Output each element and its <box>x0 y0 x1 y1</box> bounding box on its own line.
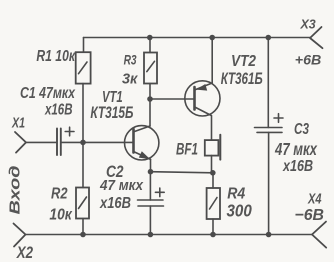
svg-text:X4: X4 <box>307 191 321 207</box>
svg-text:+6В: +6В <box>295 51 322 67</box>
connector X2 <box>14 224 34 262</box>
svg-text:КТ361Б: КТ361Б <box>221 69 263 88</box>
svg-text:R2: R2 <box>51 186 68 203</box>
wire bottom rail <box>26 234 313 236</box>
resistor R1 <box>36 38 90 143</box>
node VT2 emitter top <box>209 35 215 41</box>
connector X4 <box>295 191 327 247</box>
capacitor C1 <box>20 85 76 155</box>
label Вход <box>8 165 24 214</box>
capacitor C2 <box>99 163 164 234</box>
node C3 top <box>266 35 272 41</box>
node R4 bottom <box>210 232 216 238</box>
transistor VT1 <box>90 89 158 172</box>
wire node B to VT2 base <box>150 98 194 100</box>
wire X1 to C1 <box>26 141 56 143</box>
wire node A to VT1 base <box>83 141 133 143</box>
node C2 bottom <box>148 232 154 238</box>
svg-text:X3: X3 <box>300 16 317 31</box>
node VT1 emitter <box>148 169 154 175</box>
telephone BF1 <box>176 135 220 173</box>
svg-text:х16В: х16В <box>99 195 131 212</box>
svg-text:C3: C3 <box>294 121 309 138</box>
svg-text:3к: 3к <box>122 70 139 87</box>
svg-text:BF1: BF1 <box>176 141 198 159</box>
svg-text:х16В: х16В <box>44 102 72 119</box>
svg-text:VT2: VT2 <box>231 53 256 70</box>
svg-text:300: 300 <box>227 200 253 220</box>
node B <box>147 96 153 102</box>
svg-text:X1: X1 <box>11 115 25 131</box>
wire C1 to node A <box>61 141 83 143</box>
svg-text:47 мкх: 47 мкх <box>99 177 143 194</box>
node C <box>210 170 216 176</box>
connector X1 <box>11 115 26 152</box>
node R2 bottom <box>80 232 86 238</box>
svg-text:х16В: х16В <box>282 158 313 175</box>
wire top rail <box>84 37 311 39</box>
node C3 bottom <box>266 232 272 238</box>
svg-text:X2: X2 <box>16 243 34 262</box>
svg-text:Вход: Вход <box>8 165 24 214</box>
connector X3 <box>295 16 323 67</box>
svg-text:R1 10к: R1 10к <box>36 48 75 65</box>
node A <box>80 140 86 146</box>
wire VT1 emitter to node C <box>151 172 213 173</box>
svg-text:47 мкх: 47 мкх <box>274 139 318 159</box>
resistor R3 <box>122 38 157 100</box>
svg-text:−6В: −6В <box>295 207 325 224</box>
node R3 top <box>147 35 153 41</box>
resistor R4 <box>207 173 252 235</box>
svg-text:R3: R3 <box>124 52 137 68</box>
transistor VT2 <box>185 38 263 141</box>
capacitor C3 <box>255 38 318 235</box>
svg-text:10к: 10к <box>49 206 72 223</box>
svg-text:КТ315Б: КТ315Б <box>90 104 133 122</box>
svg-text:C1 47мкх: C1 47мкх <box>20 85 76 102</box>
resistor R2 <box>49 142 89 234</box>
